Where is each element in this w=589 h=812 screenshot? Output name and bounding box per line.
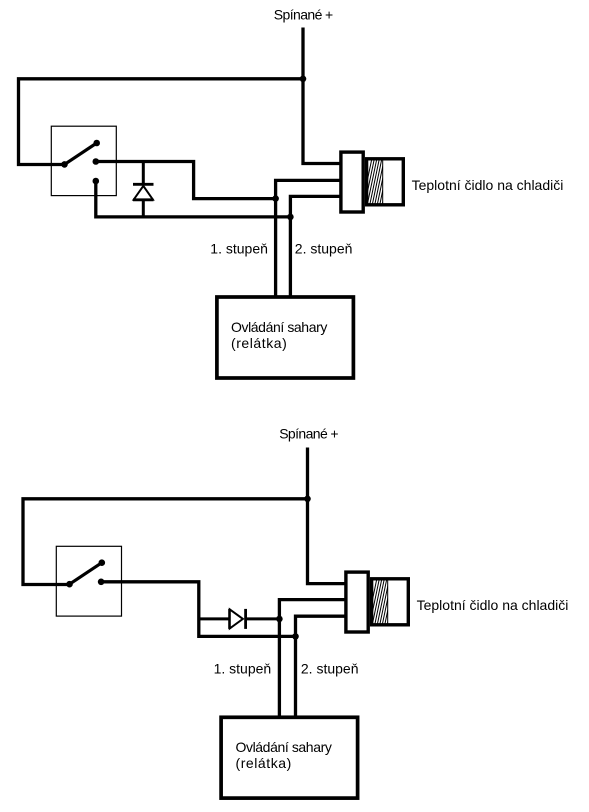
sensor: temperature probe flange (bottom) (346, 572, 368, 632)
junction: node C (1. stupeň net, bottom) (276, 616, 283, 623)
svg-text:Teplotní čidlo na chladiči: Teplotní čidlo na chladiči (412, 177, 564, 193)
switch S1 throw 2 terminal (93, 178, 100, 185)
switch S2 common terminal (66, 581, 73, 588)
wire: sensor pin 2 left then down to relay box (bottom 1. stupeň) (279, 600, 347, 717)
svg-text:Spínané +: Spínané + (274, 7, 333, 23)
switch S2 box (56, 546, 121, 616)
switch S2 throw terminal (98, 579, 105, 586)
svg-text:1. stupeň: 1. stupeň (214, 660, 272, 676)
svg-text:Ovládání sahary: Ovládání sahary (236, 739, 332, 755)
diode D1 (vertical, cathode up) (133, 162, 154, 217)
sensor: temperature probe flange (341, 152, 363, 212)
junction: node A (1. stupeň net) (272, 195, 279, 202)
sensor: temperature probe body (367, 159, 404, 205)
svg-text:Spínané +: Spínané + (279, 425, 338, 441)
junction: supply tap (300, 76, 307, 83)
svg-text:1. stupeň: 1. stupeň (210, 240, 268, 256)
switch S1 throw 1 terminal (93, 158, 100, 165)
switch S1 lever tip (93, 140, 100, 147)
svg-text:Ovládání sahary: Ovládání sahary (231, 319, 327, 335)
sensor: thread hatching (362, 158, 392, 206)
junction: node D (2. stupeň net, bottom) (292, 633, 299, 640)
wire: top horizontal to left, down, into switch common (19, 79, 304, 165)
switch S1 common terminal (61, 161, 68, 168)
wire: throw 2 down, right to node B (96, 181, 291, 217)
svg-text:(relátka): (relátka) (231, 335, 287, 351)
sensor: temperature probe body (bottom) (372, 579, 409, 625)
switch S2 lever (70, 563, 102, 585)
svg-text:2. stupeň: 2. stupeň (301, 660, 359, 676)
wire: sensor pin 2 left then down to relay box (1. stupeň) (276, 180, 342, 297)
svg-text:Teplotní čidlo na chladiči: Teplotní čidlo na chladiči (417, 597, 569, 613)
wire: sensor pin 3 left then down to relay box (bottom 2. stupeň) (296, 616, 348, 717)
svg-text:2. stupeň: 2. stupeň (295, 240, 353, 256)
wire: top horizontal to left, down, into switch common (bottom) (23, 499, 308, 585)
junction: supply tap (bottom) (304, 496, 311, 503)
wire: sensor pin 3 left then down to relay box (2. stupeň) (290, 196, 342, 297)
switch S2 lever tip (99, 559, 106, 566)
relay box (top): Ovládání sahary (217, 297, 354, 378)
wire: throw 1 right, down, right to node A (96, 162, 276, 199)
svg-text:(relátka): (relátka) (236, 755, 292, 771)
wire: supply vertical down then right into sensor pin 1 (bottom) (308, 448, 348, 584)
switch S1 lever (65, 143, 97, 164)
diode D2 (horizontal, cathode right) (199, 609, 280, 629)
wire: supply vertical from "Spínané +" down, then right into sensor pin 1 (303, 28, 342, 164)
junction: node B (2. stupeň net) (287, 214, 294, 221)
relay box (bottom): Ovládání sahary (221, 717, 358, 798)
switch S1 box (51, 126, 116, 195)
wire: switch output right, down, right to node D (bottom) (101, 582, 295, 637)
sensor: thread hatching (bottom) (367, 578, 397, 626)
